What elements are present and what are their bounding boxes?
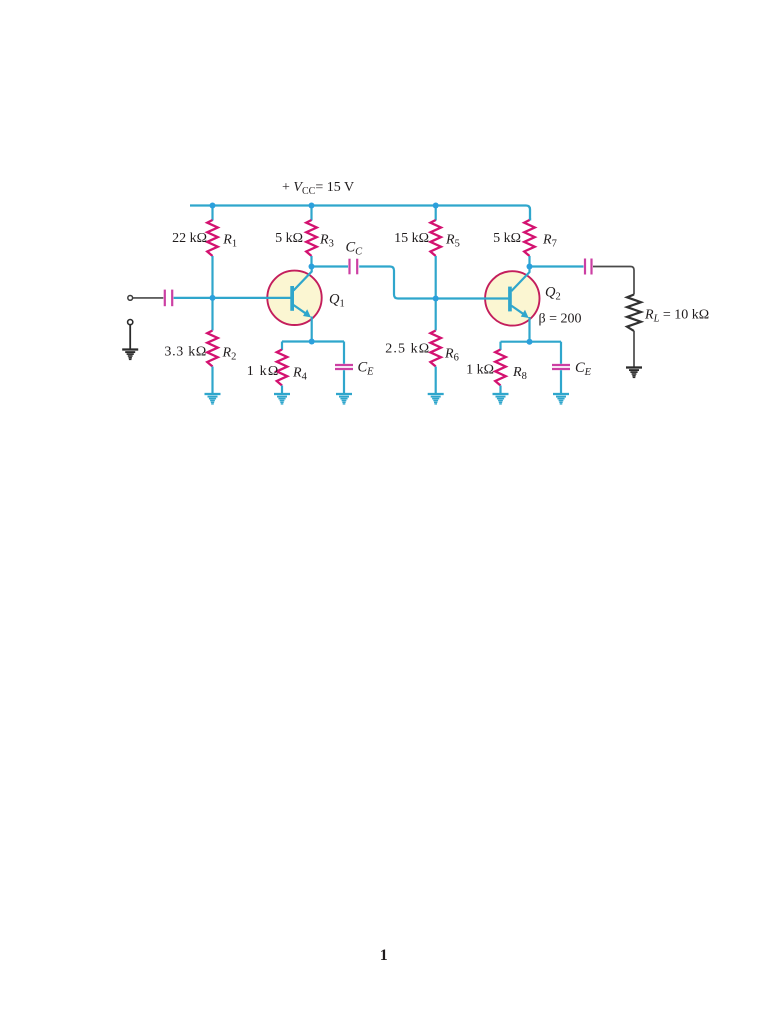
resistor R4 <box>277 350 288 386</box>
wire: CE2 branch down <box>560 342 562 364</box>
wire: Q1 collector to Cc <box>312 265 349 267</box>
wire: ground terminal stem (dark) <box>129 325 131 349</box>
capacitor Cc plates <box>350 259 358 275</box>
node: rail-R5 junction <box>433 203 439 209</box>
wire: output cap to RL (dark) <box>593 267 634 295</box>
wire: R3 bottom to collector node <box>310 256 312 267</box>
ground: input reference ground (black) <box>122 350 138 360</box>
svg-text:R8: R8 <box>512 365 527 382</box>
wire: Q2 emitter down to emitter node <box>528 317 530 342</box>
wire: input terminal to coupling cap (dark) <box>133 297 163 299</box>
svg-text:1: 1 <box>380 947 388 964</box>
ground terminal below input <box>128 320 133 325</box>
wire: R5 top stub <box>435 206 437 221</box>
resistor R6 <box>430 331 441 367</box>
capacitor CE2 plates <box>552 365 570 369</box>
wire: R7 from rail corner <box>529 218 531 221</box>
wire: R2 bottom to ground <box>211 367 213 394</box>
input terminal <box>128 296 133 301</box>
svg-text:1 kΩ: 1 kΩ <box>466 363 494 378</box>
wire: input cap to Q1 base <box>174 297 291 299</box>
capacitor CE1 plates <box>335 365 353 369</box>
wire: Cc to second stage base <box>359 267 508 299</box>
wire: Q2 emitter bus <box>501 341 562 343</box>
wire: CE1 branch down <box>343 342 345 364</box>
svg-text:5 kΩ: 5 kΩ <box>275 231 303 246</box>
wire: CE2 to ground <box>560 370 562 393</box>
svg-text:β = 200: β = 200 <box>539 312 582 327</box>
ground below R2 <box>205 394 221 404</box>
svg-text:+ VCC= 15 V: + VCC= 15 V <box>282 180 354 197</box>
ground below R6 <box>428 394 444 404</box>
wire: R6 bottom to ground <box>435 367 437 394</box>
wire: R1 top stub <box>211 206 213 221</box>
wire: R3 top stub <box>310 206 312 221</box>
resistor R3 <box>306 220 317 256</box>
wire: R8 branch down <box>499 342 501 350</box>
wire: Q1 emitter down to emitter node <box>311 317 313 342</box>
svg-text:R4: R4 <box>292 366 308 383</box>
svg-text:R3: R3 <box>319 233 334 250</box>
svg-text:R2: R2 <box>222 346 237 363</box>
ground below RL (black) <box>626 368 642 378</box>
wire: R4 bottom to ground <box>281 386 283 394</box>
svg-text:15 kΩ: 15 kΩ <box>394 231 429 246</box>
svg-text:Q1: Q1 <box>329 292 345 310</box>
transistor Q1 <box>266 267 322 325</box>
node: Q1 emitter junction <box>309 339 315 345</box>
node: Q2 collector junction <box>527 264 533 270</box>
node: Q2 emitter junction <box>527 339 533 345</box>
wire: R1 bottom to base node to R2 <box>211 256 213 331</box>
resistor R7 <box>524 220 535 256</box>
node: rail-R3 junction <box>309 203 315 209</box>
resistor R2 <box>207 331 218 367</box>
svg-text:CC: CC <box>346 240 364 258</box>
resistor RL <box>627 295 641 331</box>
svg-text:22 kΩ: 22 kΩ <box>172 231 207 246</box>
svg-text:5 kΩ: 5 kΩ <box>493 231 521 246</box>
capacitor: input coupling cap plates <box>165 290 172 307</box>
wire: R8 bottom to ground <box>499 386 501 394</box>
svg-text:CE: CE <box>358 360 375 378</box>
wire: R4 branch down <box>281 342 283 351</box>
node: Q2 base junction <box>433 296 439 302</box>
svg-text:R5: R5 <box>445 233 460 250</box>
ground below R8 <box>493 394 509 404</box>
svg-text:3.3 kΩ: 3.3 kΩ <box>164 345 207 360</box>
wire: R5 bottom through base node to R6 <box>435 256 437 331</box>
svg-text:R6: R6 <box>444 347 459 364</box>
transistor Q2 <box>484 267 540 326</box>
svg-text:R7: R7 <box>542 233 557 250</box>
wire: RL bottom to ground (dark) <box>633 331 635 367</box>
wire: +Vcc supply rail with right corner down to R7 <box>190 206 530 221</box>
svg-text:Q2: Q2 <box>545 285 561 303</box>
svg-text:RL = 10 kΩ: RL = 10 kΩ <box>644 308 709 325</box>
node: Q1 collector junction <box>309 264 315 270</box>
wire: CE1 to ground <box>343 370 345 393</box>
capacitor: output coupling cap plates <box>585 259 592 275</box>
node: Q1 base junction <box>210 295 216 301</box>
wire: Q1 emitter bus <box>282 340 344 342</box>
node: rail-R1 junction <box>210 203 216 209</box>
svg-text:2.5 kΩ: 2.5 kΩ <box>385 342 430 357</box>
svg-text:CE: CE <box>575 360 592 378</box>
wire: R7 bottom to Q2 collector node <box>528 256 530 267</box>
svg-text:1 kΩ: 1 kΩ <box>247 364 280 379</box>
ground below R4 <box>274 394 290 404</box>
resistor R5 <box>430 220 441 256</box>
svg-text:R1: R1 <box>222 233 237 250</box>
resistor R1 <box>207 220 218 256</box>
resistor R8 <box>495 350 506 386</box>
ground below CE1 <box>336 394 352 404</box>
wire: Q2 collector to output cap <box>530 265 584 267</box>
ground below CE2 <box>553 394 569 404</box>
